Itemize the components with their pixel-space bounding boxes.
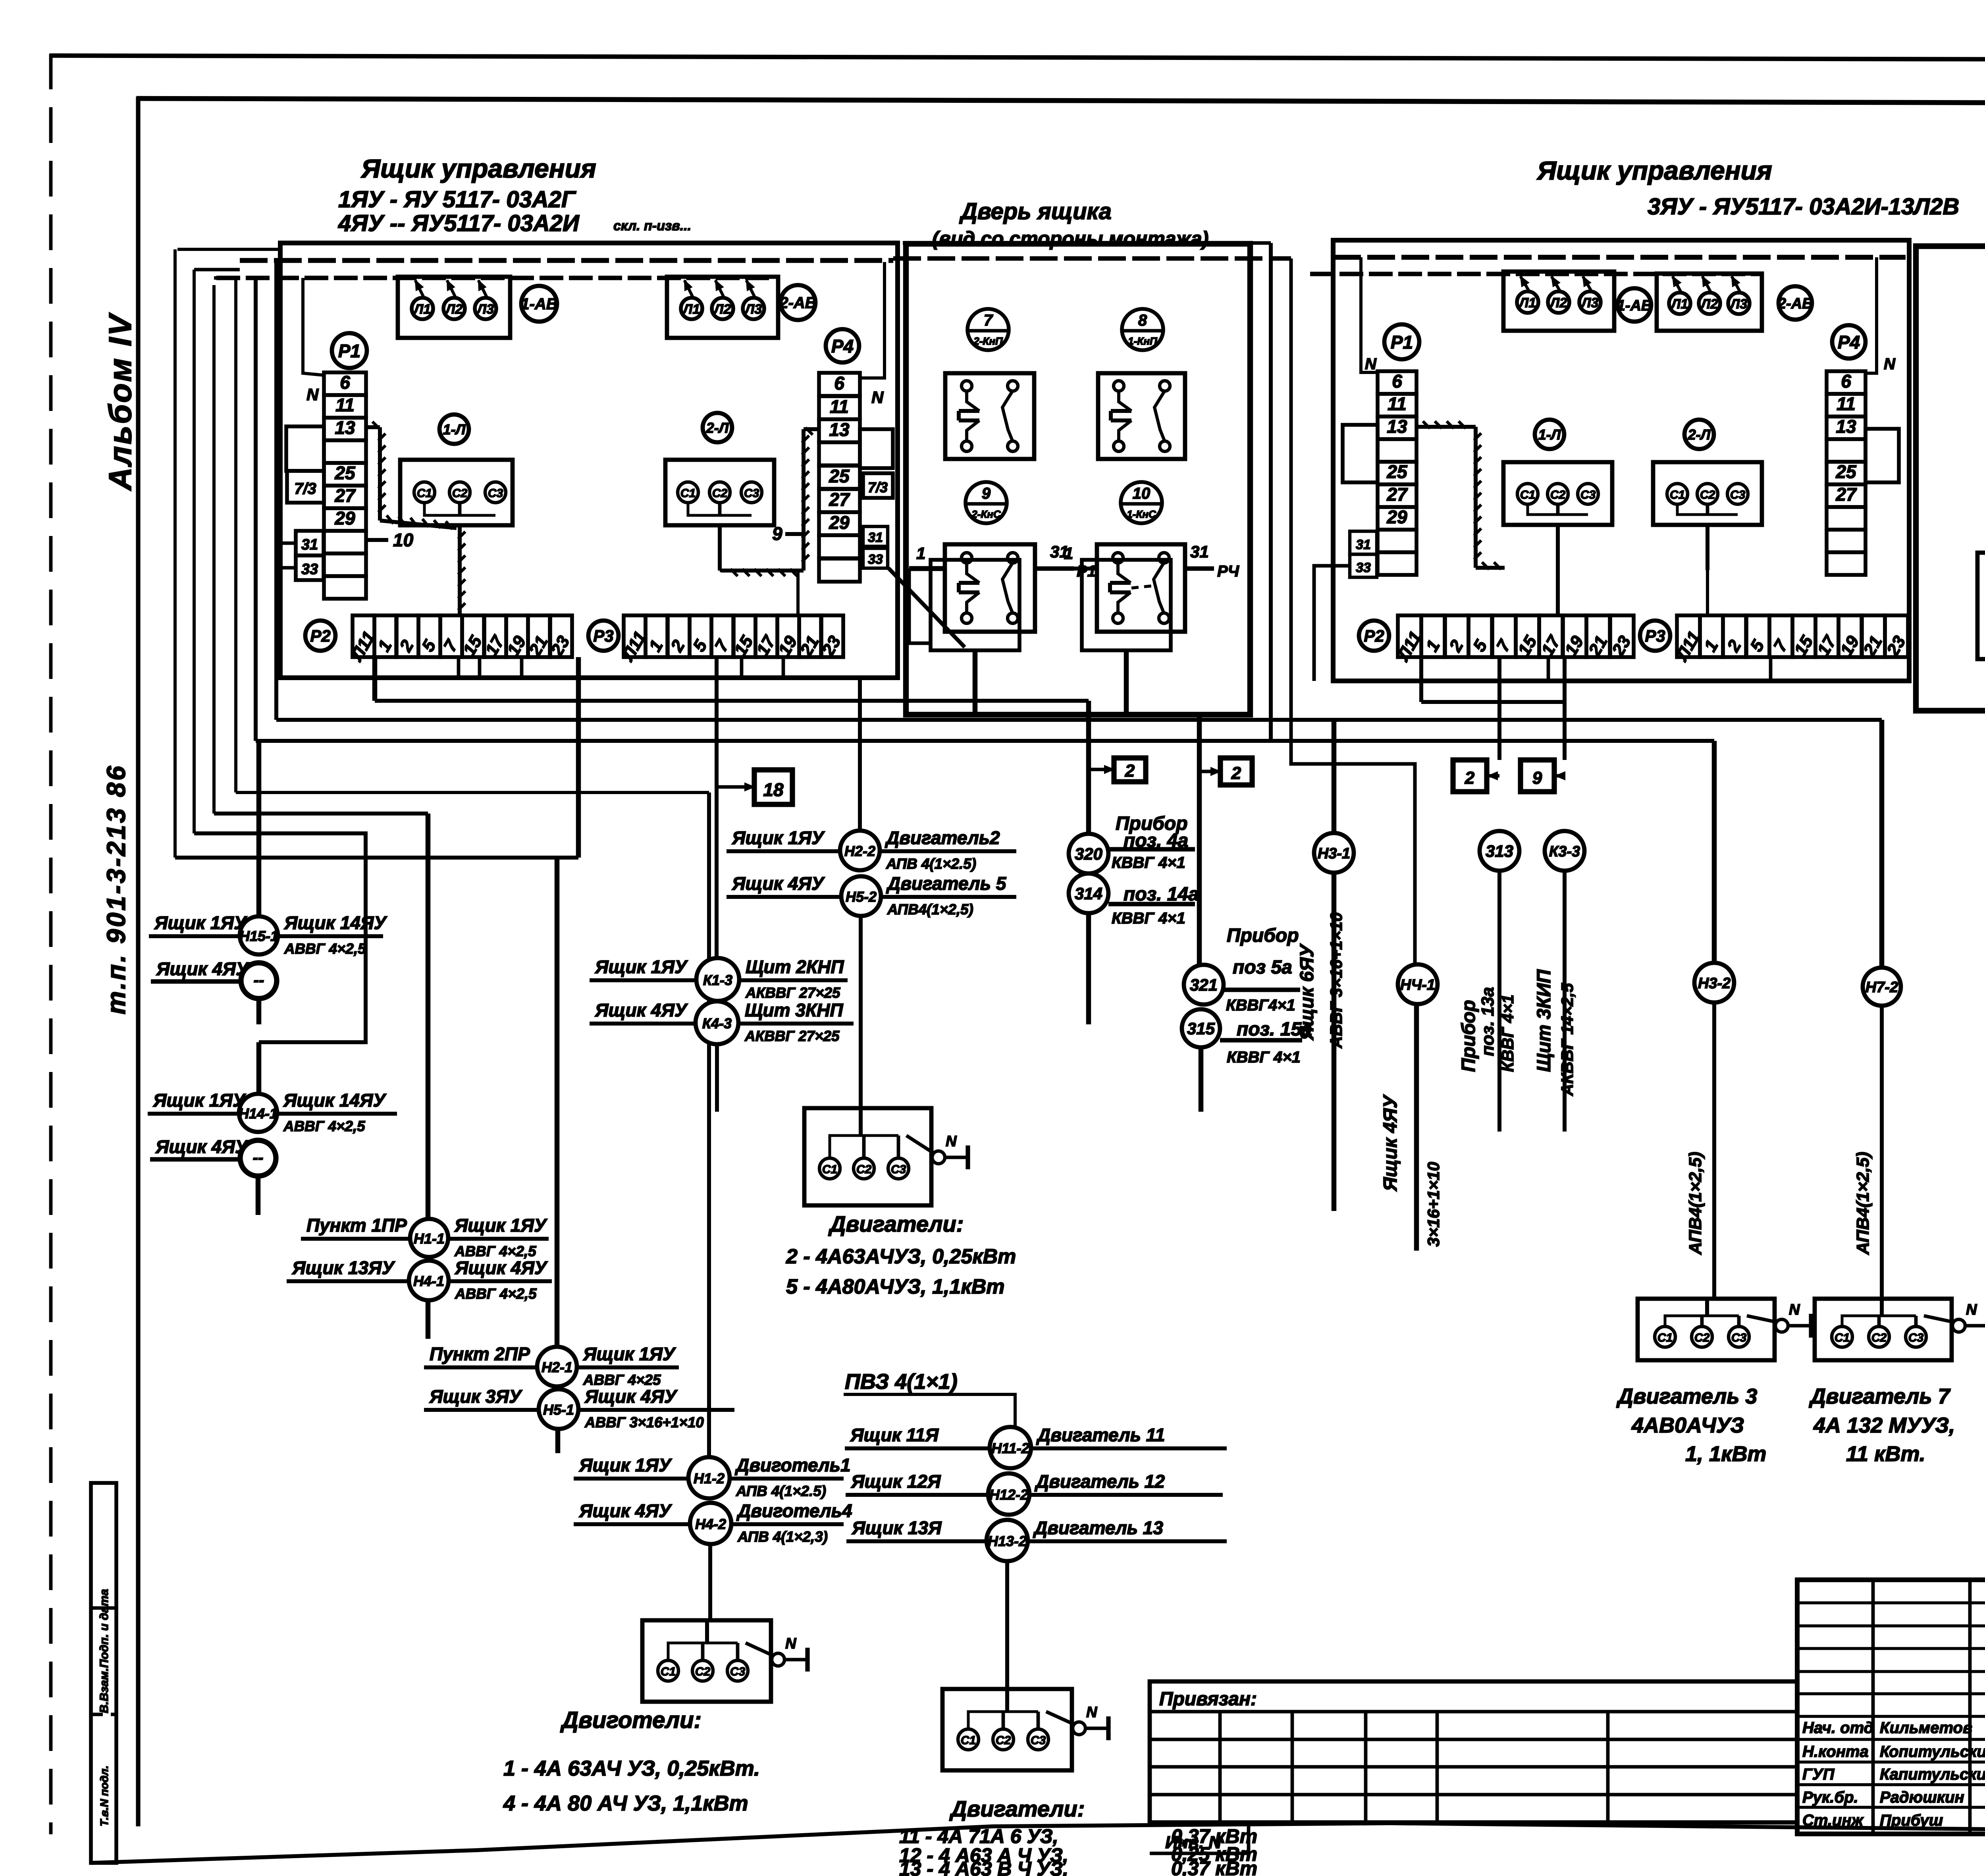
- wire label 10: [366, 530, 414, 550]
- connection dash below Н14-1: [150, 1136, 276, 1215]
- svg-text:29: 29: [334, 508, 355, 528]
- svg-text:1-АВ: 1-АВ: [1617, 297, 1652, 314]
- sheet ref box 2 b: [1199, 758, 1252, 785]
- svg-text:Щит 3КИП: Щит 3КИП: [1534, 969, 1555, 1072]
- svg-text:2-АБ: 2-АБ: [1777, 295, 1813, 312]
- wire trunk К-series from Р3 cell7: [715, 657, 719, 958]
- svg-text:КВВГ 4×1: КВВГ 4×1: [1498, 995, 1517, 1072]
- svg-text:6: 6: [834, 373, 844, 393]
- terminal strip Р4 right: [1827, 371, 1866, 575]
- svg-text:2-Л: 2-Л: [1688, 426, 1711, 443]
- svg-text:11: 11: [830, 396, 849, 417]
- svg-text:N: N: [306, 385, 319, 404]
- connection Н4-2: [574, 1500, 852, 1620]
- svg-text:КВВГ 4×1: КВВГ 4×1: [1112, 910, 1185, 927]
- cable label ПВЗ 4(1×1): [844, 1370, 1015, 1427]
- svg-text:Р4: Р4: [1838, 332, 1860, 353]
- svg-text:С1: С1: [1835, 1331, 1850, 1344]
- svg-text:АПВ 4(1×2.5): АПВ 4(1×2.5): [886, 856, 976, 872]
- svg-text:С3: С3: [1730, 488, 1746, 501]
- svg-text:3×16+1×10: 3×16+1×10: [1424, 1162, 1443, 1247]
- svg-text:Н13-2: Н13-2: [988, 1533, 1027, 1549]
- demontage hatch right side: [721, 428, 819, 576]
- svg-text:N: N: [785, 1635, 797, 1652]
- side box 31 right section: [1350, 531, 1377, 554]
- svg-text:Р2: Р2: [1364, 627, 1384, 645]
- svg-text:Т.в.N подл.: Т.в.N подл.: [98, 1766, 110, 1826]
- side box tall right section: [1343, 425, 1378, 482]
- lamp box 1-Л right section: [1503, 272, 1614, 331]
- terminal side box 7/3: [287, 471, 324, 503]
- connection Н1-2: [574, 1455, 851, 1499]
- svg-text:Прибор: Прибор: [1227, 925, 1299, 946]
- terminal strip Р1: [324, 372, 366, 599]
- connection К4-3: [590, 1000, 854, 1112]
- lamp box 1-Л signal lamps: [398, 277, 510, 338]
- motor leads box С1С2С3 right: [665, 460, 774, 525]
- wire N to strip Р1: [303, 278, 324, 404]
- svg-text:321: 321: [1190, 976, 1218, 994]
- svg-text:33: 33: [868, 552, 883, 567]
- terminal strip Р3: [618, 615, 845, 665]
- connection Н1-1: [301, 1215, 549, 1259]
- svg-text:3ЯУ - ЯУ5117- 03А2И-13Л2В: 3ЯУ - ЯУ5117- 03А2И-13Л2В: [1648, 194, 1959, 220]
- svg-text:Н3-2: Н3-2: [1698, 975, 1731, 992]
- wire N to Р1 right: [1361, 257, 1378, 373]
- wire switch10 left pin 1: [1056, 544, 1097, 569]
- connection Н13-2: [846, 1517, 1227, 1689]
- svg-text:27: 27: [1386, 484, 1408, 505]
- svg-text:Нач. отд: Нач. отд: [1802, 1719, 1873, 1737]
- svg-text:4 - 4А 80 АЧ УЗ, 1,1кВт: 4 - 4А 80 АЧ УЗ, 1,1кВт: [503, 1791, 748, 1815]
- svg-text:Л2: Л2: [445, 302, 463, 317]
- svg-text:2-КнП: 2-КнП: [973, 335, 1003, 347]
- wire from terminal 33 diagonal: [888, 568, 965, 647]
- header left line3: 4ЯУ - ЯУ5117-03А2И: [338, 210, 691, 236]
- svg-text:Л2: Л2: [1700, 297, 1718, 312]
- svg-text:Двигатели:: Двигатели:: [949, 1796, 1085, 1821]
- cable label Ящик 6ЯУ rotated: [1297, 912, 1345, 1049]
- relay circle Р2: [305, 621, 335, 651]
- svg-text:Щит 2КНП: Щит 2КНП: [746, 956, 844, 977]
- label circle 2-Л: [703, 413, 732, 442]
- svg-text:Л3: Л3: [744, 302, 762, 317]
- svg-text:Ящик 13Я: Ящик 13Я: [852, 1517, 942, 1538]
- svg-text:АВВГ 4×2,5: АВВГ 4×2,5: [284, 941, 366, 957]
- svg-text:Р1: Р1: [1077, 563, 1096, 580]
- svg-text:АКВВГ 14×2,5: АКВВГ 14×2,5: [1558, 983, 1576, 1096]
- svg-text:С1: С1: [1670, 488, 1685, 501]
- svg-text:11: 11: [1388, 393, 1407, 414]
- relay circle Р1 right: [1384, 324, 1419, 359]
- svg-text:6: 6: [340, 372, 350, 393]
- svg-text:9: 9: [772, 523, 782, 544]
- svg-text:Прибуш: Прибуш: [1880, 1812, 1943, 1829]
- svg-text:т.п. 901-3-213 86: т.п. 901-3-213 86: [101, 764, 131, 1014]
- svg-text:С3: С3: [744, 487, 759, 500]
- svg-text:1 - 4А 63АЧ УЗ, 0,25кВт.: 1 - 4А 63АЧ УЗ, 0,25кВт.: [503, 1756, 760, 1780]
- relay circle Р4 right: [1832, 325, 1866, 359]
- terminal side box 31 right: [863, 526, 888, 546]
- svg-text:С3: С3: [488, 487, 503, 500]
- svg-text:Ящик 13ЯУ: Ящик 13ЯУ: [292, 1257, 395, 1278]
- svg-text:31: 31: [1356, 537, 1371, 552]
- wire switch9 left pin 1: [909, 544, 945, 643]
- box 1ЯУ outline: [280, 243, 898, 678]
- svg-text:N: N: [946, 1133, 957, 1150]
- svg-text:Ящик 1ЯУ: Ящик 1ЯУ: [595, 956, 688, 977]
- connection 321: [1184, 715, 1300, 1014]
- svg-text:С3: С3: [1908, 1331, 1924, 1344]
- svg-text:Р4: Р4: [831, 336, 854, 357]
- svg-text:6: 6: [1841, 371, 1851, 391]
- svg-text:Ящик 6ЯУ: Ящик 6ЯУ: [1297, 943, 1318, 1041]
- svg-text:N: N: [1365, 355, 1377, 373]
- riser wire between sections x3201: [280, 243, 1271, 741]
- svg-text:13: 13: [1387, 416, 1407, 437]
- terminal strip Р2 right: [1393, 615, 1635, 665]
- svg-text:18: 18: [763, 779, 784, 800]
- svg-text:Н4-2: Н4-2: [695, 1516, 726, 1532]
- left stamp table Привязан: [1150, 1681, 1797, 1822]
- terminal strip Р2: [347, 615, 574, 665]
- svg-text:Кильметов: Кильметов: [1880, 1719, 1972, 1737]
- svg-text:АВВГ 4×2,5: АВВГ 4×2,5: [283, 1118, 365, 1134]
- title block rows names: [1802, 1719, 1985, 1829]
- svg-text:АВВГ 3×16+1×10: АВВГ 3×16+1×10: [1327, 912, 1345, 1049]
- label circle 1-АВ: [520, 286, 557, 322]
- cable label АПВ4 left rotated: [1686, 1152, 1705, 1255]
- svg-text:25: 25: [829, 466, 850, 486]
- connection dash below Н15-1: [151, 958, 277, 1024]
- svg-text:Ящик 11Я: Ящик 11Я: [850, 1425, 939, 1445]
- svg-text:С3: С3: [730, 1665, 746, 1678]
- svg-text:7: 7: [984, 312, 993, 329]
- connection Н7-2: [1863, 968, 1901, 1299]
- svg-text:Л1: Л1: [1518, 295, 1536, 310]
- wire stubs strip Р3: [742, 657, 783, 677]
- svg-text:Л1: Л1: [413, 302, 431, 317]
- svg-text:1-Л: 1-Л: [443, 421, 466, 438]
- wire bundle corner x539: [214, 278, 216, 814]
- svg-text:Н5-2: Н5-2: [846, 889, 877, 905]
- relay circle Р4: [826, 329, 859, 362]
- wire stubs strip Р2: [459, 657, 522, 677]
- bus wire y2049: [214, 814, 428, 1219]
- svg-text:Двиготель1: Двиготель1: [734, 1455, 851, 1475]
- relay circle Р3 right: [1640, 621, 1670, 651]
- svg-text:10: 10: [1133, 485, 1151, 502]
- margin text Альбом IV rotated: [102, 312, 138, 491]
- button circle 9 2-КнС: [966, 482, 1007, 523]
- terminal side box 33: [276, 555, 324, 580]
- svg-text:С2: С2: [1871, 1331, 1887, 1344]
- sheet ref box 2 c: [1453, 760, 1499, 792]
- svg-text:Н.конта: Н.конта: [1802, 1743, 1869, 1760]
- svg-text:С2: С2: [1694, 1331, 1710, 1344]
- wire С2 right1 down: [1556, 525, 1560, 615]
- svg-text:ГУП: ГУП: [1802, 1766, 1835, 1783]
- connection 314: [1069, 873, 1199, 1024]
- svg-text:1ЯУ - ЯУ 5117- 03А2Г: 1ЯУ - ЯУ 5117- 03А2Г: [338, 187, 576, 212]
- wire bundle corner x594: [234, 278, 237, 792]
- svg-text:N: N: [1966, 1301, 1977, 1318]
- svg-text:8: 8: [1138, 312, 1147, 329]
- connection Н2-2: [727, 827, 1016, 872]
- terminal strip Р4: [819, 373, 860, 582]
- svg-text:2-АВ: 2-АВ: [779, 294, 816, 312]
- svg-text:С2: С2: [695, 1665, 711, 1678]
- wire bundle corner x696: [274, 260, 278, 720]
- svg-text:1-КнС: 1-КнС: [1127, 508, 1156, 520]
- terminal strip Р1 right: [1378, 371, 1416, 575]
- svg-text:Н15-1: Н15-1: [239, 928, 278, 944]
- terminal side box 33 right: [863, 548, 888, 568]
- svg-text:N: N: [1884, 355, 1896, 373]
- svg-text:--: --: [254, 972, 264, 989]
- motors list left: [503, 1707, 760, 1815]
- lamp box 2-Л signal lamps: [667, 277, 778, 338]
- svg-text:поз. 4а: поз. 4а: [1124, 830, 1188, 851]
- wire drop under switch 10: [1124, 650, 1129, 715]
- connection Н2-1: [424, 1344, 679, 1388]
- svg-text:Л2: Л2: [1549, 295, 1567, 310]
- svg-text:Н2-1: Н2-1: [542, 1359, 572, 1375]
- svg-text:Ящик 4ЯУ: Ящик 4ЯУ: [455, 1257, 548, 1278]
- svg-text:6: 6: [1392, 371, 1402, 391]
- svg-text:С2: С2: [996, 1734, 1011, 1747]
- svg-text:33: 33: [301, 561, 318, 578]
- svg-text:АВВГ 4×2,5: АВВГ 4×2,5: [455, 1286, 537, 1302]
- svg-text:1: 1: [916, 544, 925, 563]
- svg-text:поз. 13а: поз. 13а: [1478, 987, 1497, 1056]
- svg-text:Пункт 2ПР: Пункт 2ПР: [430, 1344, 530, 1364]
- svg-text:9: 9: [1532, 768, 1542, 788]
- svg-text:Н3-1: Н3-1: [1318, 845, 1350, 862]
- connection Н5-1: [424, 1386, 734, 1453]
- connection Н12-2: [846, 1471, 1223, 1515]
- relay circle Р2 right: [1359, 621, 1389, 651]
- relay circle Р3: [588, 621, 619, 651]
- svg-text:1, 1кВт: 1, 1кВт: [1685, 1442, 1766, 1466]
- svg-text:31: 31: [1190, 542, 1209, 561]
- svg-text:Н4-1: Н4-1: [413, 1273, 444, 1289]
- door box 1 outline: [906, 244, 1250, 715]
- bottom-left stamp column rotated text2: [98, 1766, 110, 1826]
- svg-text:С3: С3: [1031, 1734, 1046, 1747]
- motor leads box С1С2С3 left: [400, 460, 513, 525]
- svg-text:С2: С2: [1550, 488, 1566, 501]
- svg-text:Двиготель4: Двиготель4: [736, 1500, 852, 1521]
- bus wire y2099: [194, 833, 366, 1042]
- label circle 2-АБ right: [1777, 286, 1813, 320]
- svg-text:313: 313: [1486, 842, 1513, 860]
- svg-text:5 - 4А80АЧУЗ, 1,1кВт: 5 - 4А80АЧУЗ, 1,1кВт: [786, 1275, 1005, 1298]
- svg-text:С1: С1: [961, 1734, 976, 1747]
- motor box 3: [1638, 1298, 1811, 1360]
- svg-text:В.Взам.Подп. и дата: В.Взам.Подп. и дата: [98, 1589, 111, 1713]
- svg-text:Р3: Р3: [593, 627, 613, 645]
- label circle 2-Л right: [1684, 420, 1714, 449]
- svg-text:Ящик 1ЯУ: Ящик 1ЯУ: [583, 1344, 676, 1364]
- sheet ref box 9: [1521, 760, 1565, 792]
- svg-text:Копитульский: Копитульский: [1880, 1743, 1985, 1760]
- svg-text:7/3: 7/3: [868, 479, 888, 496]
- svg-text:Ящик управления: Ящик управления: [1536, 156, 1772, 185]
- svg-text:N: N: [1086, 1704, 1098, 1721]
- relay circle Р1: [332, 333, 367, 368]
- bus wire top inside box2: [1333, 255, 1906, 260]
- svg-text:Двигатели:: Двигатели:: [828, 1211, 964, 1236]
- svg-text:4А 132 МУУЗ,: 4А 132 МУУЗ,: [1813, 1413, 1955, 1437]
- svg-text:31: 31: [301, 536, 318, 553]
- header door1 line2: [932, 228, 1208, 250]
- connection 315: [1182, 1009, 1312, 1112]
- wire bundle corner x441: [175, 249, 279, 858]
- bus wire top y656: [240, 258, 893, 263]
- svg-text:Ящик управления: Ящик управления: [360, 154, 596, 183]
- svg-text:Н14-1: Н14-1: [239, 1105, 278, 1122]
- svg-text:Прибор: Прибор: [1458, 1000, 1479, 1072]
- connection К3-3: [1545, 831, 1584, 1132]
- svg-text:Ящик 1ЯУ: Ящик 1ЯУ: [153, 1090, 247, 1111]
- svg-text:поз. 14а: поз. 14а: [1124, 884, 1199, 905]
- svg-text:Н2-2: Н2-2: [844, 843, 875, 859]
- svg-text:Двигатель 13: Двигатель 13: [1033, 1517, 1163, 1538]
- pushbutton switch 8: [1098, 373, 1185, 459]
- bottom-left stamp column box: [91, 1483, 116, 1863]
- svg-text:С1: С1: [822, 1163, 837, 1176]
- wire trunk 313 from strip: [1497, 657, 1501, 760]
- svg-text:2 - 4А63АЧУЗ, 0,25кВт: 2 - 4А63АЧУЗ, 0,25кВт: [786, 1245, 1016, 1268]
- bus wire top y700: [216, 276, 774, 280]
- svg-text:Н11-2: Н11-2: [991, 1440, 1029, 1456]
- svg-text:4ЯУ -- ЯУ5117- 03А2И: 4ЯУ -- ЯУ5117- 03А2И: [338, 210, 580, 236]
- bus wire y1996: [236, 792, 709, 1457]
- terminal side box tall right: [860, 429, 893, 468]
- cable label Ящик 4ЯУ rotated: [1380, 1094, 1443, 1247]
- svg-text:Ящик 12Я: Ящик 12Я: [851, 1471, 941, 1492]
- svg-text:Альбом IV: Альбом IV: [102, 312, 138, 491]
- svg-text:Р1: Р1: [338, 341, 360, 361]
- header right: Ящик управления: [1536, 156, 1772, 185]
- wire С2 right2 down: [1706, 525, 1709, 615]
- svg-text:АКВВГ 27×25: АКВВГ 27×25: [745, 985, 840, 1001]
- svg-text:314: 314: [1075, 884, 1102, 903]
- pushbutton switch 9: [931, 544, 1035, 650]
- svg-text:320: 320: [1075, 844, 1102, 863]
- svg-text:Рук.бр.: Рук.бр.: [1802, 1789, 1858, 1806]
- cable label Щит 3КИП rotated: [1534, 969, 1576, 1096]
- svg-text:31: 31: [868, 530, 883, 545]
- motors list bottom: [899, 1796, 1257, 1876]
- svg-text:Ящик 1ЯУ: Ящик 1ЯУ: [732, 827, 825, 848]
- motor leads box С right2: [1653, 462, 1762, 525]
- svg-text:13: 13: [1836, 416, 1856, 437]
- svg-text:13 - 4 А63 В Ч УЗ,: 13 - 4 А63 В Ч УЗ,: [899, 1858, 1068, 1876]
- bus wire y1813 long: [276, 720, 1882, 968]
- svg-text:11 кВт.: 11 кВт.: [1846, 1442, 1925, 1466]
- svg-text:С1: С1: [661, 1665, 676, 1678]
- svg-text:Двигатель 12: Двигатель 12: [1034, 1471, 1165, 1492]
- wire switch9 right pin 31 to Р1: [1035, 542, 1096, 580]
- svg-text:Привязан:: Привязан:: [1159, 1689, 1257, 1710]
- svg-text:2: 2: [1231, 764, 1241, 783]
- svg-text:С1: С1: [417, 487, 432, 500]
- svg-text:С2: С2: [1700, 488, 1715, 501]
- svg-text:Ящик 4ЯУ: Ящик 4ЯУ: [1380, 1094, 1401, 1192]
- svg-text:Ящик 4ЯУ: Ящик 4ЯУ: [732, 873, 825, 894]
- header right line2: 3ЯУ - ЯУ5117-03А2И-13Л2В: [1648, 194, 1959, 220]
- svg-text:1-КнП: 1-КнП: [1128, 335, 1158, 347]
- svg-text:Двигатель2: Двигатель2: [885, 827, 1000, 848]
- svg-text:Н12-2: Н12-2: [989, 1487, 1028, 1503]
- svg-text:Л3: Л3: [476, 302, 494, 317]
- svg-text:27: 27: [829, 489, 850, 510]
- svg-text:Ящик 1ЯУ: Ящик 1ЯУ: [579, 1455, 673, 1475]
- wire stub strip Р2 cell1: [372, 657, 378, 701]
- svg-text:Ящик 4ЯУ: Ящик 4ЯУ: [156, 958, 250, 979]
- connection НЧ-1: [1398, 964, 1438, 1251]
- svg-text:АПВ4(1×2,5): АПВ4(1×2,5): [887, 901, 973, 918]
- terminal side box blank tall: [286, 426, 324, 471]
- connection Н4-1: [287, 1257, 552, 1339]
- label circle 2-АВ: [779, 285, 816, 320]
- svg-text:Ящик 1ЯУ: Ящик 1ЯУ: [454, 1215, 548, 1236]
- svg-text:Ящик 14ЯУ: Ящик 14ЯУ: [284, 912, 387, 933]
- wire from 33 box right section: [1314, 566, 1350, 681]
- svg-text:25: 25: [334, 463, 356, 483]
- svg-text:Ящик 4ЯУ: Ящик 4ЯУ: [579, 1500, 673, 1521]
- riser wire between sections x3252: [893, 258, 1415, 965]
- svg-text:АПВ4(1×2,5): АПВ4(1×2,5): [1686, 1152, 1705, 1255]
- svg-text:Дверь ящика: Дверь ящика: [959, 199, 1112, 224]
- svg-text:Р1: Р1: [1391, 332, 1413, 353]
- svg-text:Ящик 4ЯУ: Ящик 4ЯУ: [595, 1000, 688, 1020]
- svg-text:С3: С3: [1731, 1331, 1747, 1344]
- svg-text:АПВ 4(1×2.5): АПВ 4(1×2.5): [736, 1483, 826, 1499]
- motor box under Н5-2: [804, 1107, 968, 1205]
- svg-text:С2: С2: [856, 1163, 872, 1176]
- frame top border: [137, 98, 1985, 104]
- svg-text:Ящик 1ЯУ: Ящик 1ЯУ: [154, 912, 248, 933]
- motor box 7: [1815, 1298, 1985, 1360]
- svg-text:скл. п-изв...: скл. п-изв...: [613, 218, 691, 233]
- motor 7 label: [1809, 1384, 1955, 1466]
- title block grid: [1797, 1580, 1985, 1834]
- svg-text:Ящик 14ЯУ: Ящик 14ЯУ: [283, 1090, 387, 1111]
- svg-text:33: 33: [1356, 560, 1371, 575]
- svg-text:--: --: [253, 1149, 264, 1166]
- connection 313: [1480, 831, 1519, 1132]
- svg-text:N: N: [1789, 1301, 1800, 1318]
- svg-text:Н5-1: Н5-1: [543, 1402, 574, 1418]
- svg-text:10: 10: [393, 530, 414, 550]
- svg-text:25: 25: [1835, 461, 1857, 482]
- button circle 8 1-КнП: [1122, 309, 1163, 350]
- svg-text:Л3: Л3: [1729, 297, 1747, 312]
- connection Н5-2: [727, 677, 1016, 1108]
- svg-text:Л3: Л3: [1580, 295, 1598, 310]
- cable label Прибор поз 13а rotated: [1458, 987, 1517, 1072]
- terminal side box 7/3 right: [863, 473, 893, 498]
- margin text тп 901-3-213 86 rotated: [101, 764, 131, 1014]
- svg-text:С3: С3: [891, 1163, 906, 1176]
- svg-text:Двигатель 3: Двигатель 3: [1616, 1384, 1757, 1408]
- svg-text:Н1-2: Н1-2: [694, 1470, 725, 1487]
- svg-text:2: 2: [1465, 768, 1475, 788]
- bottom-left stamp column rotated text1: [98, 1589, 111, 1713]
